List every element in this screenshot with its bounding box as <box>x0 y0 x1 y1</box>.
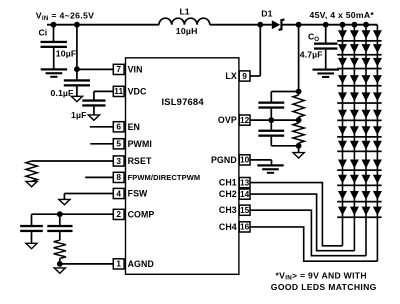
LED row 10 diodes <box>338 175 347 184</box>
wire to VIN pin 7 <box>77 68 114 70</box>
wire CH3 to LED string 3 <box>250 210 366 256</box>
svg-text:OVP: OVP <box>218 115 237 125</box>
capacitor COMP C2 <box>47 225 72 227</box>
resistor OVP R1 <box>293 95 304 117</box>
svg-text:CH4: CH4 <box>219 222 237 232</box>
svg-text:LX: LX <box>225 71 236 81</box>
wire LED string 3 column <box>365 25 367 256</box>
wire LED string 1 column <box>342 25 344 246</box>
wire COMP net <box>32 213 115 215</box>
svg-text:10µF: 10µF <box>56 48 77 58</box>
svg-text:GOOD LEDS MATCHING: GOOD LEDS MATCHING <box>271 282 377 292</box>
capacitor 1uF <box>82 99 105 101</box>
pin 4 FSW <box>124 193 126 195</box>
wire VDC pin to 1uF <box>94 90 114 92</box>
svg-text:*VIN> = 9V AND WITH: *VIN> = 9V AND WITH <box>276 270 367 281</box>
capacitor Co 4.7uF <box>314 43 337 45</box>
resistor R_SET <box>26 161 37 181</box>
pin 5 PWMI <box>124 143 126 145</box>
LED row 2 cathode bar <box>337 54 381 56</box>
LED row 4 diodes <box>338 75 347 84</box>
LED row 6 cathode bar <box>337 120 381 122</box>
pin 8 FPWM/DIRECTPWM <box>124 176 126 178</box>
svg-text:12: 12 <box>240 115 250 125</box>
pin 9 LX <box>239 71 250 81</box>
wire OVP pin to divider <box>250 119 299 121</box>
LED row 8 cathode bar <box>337 151 381 153</box>
resistor OVP R2 <box>293 123 304 143</box>
node diode output junction <box>296 22 302 28</box>
pin 2 COMP <box>124 213 126 215</box>
svg-text:EN: EN <box>128 122 140 132</box>
capacitor OVP C2 <box>270 120 272 130</box>
wire to OVP cap1 <box>270 92 272 102</box>
wire CH2 to LED string 2 <box>250 194 354 251</box>
svg-text:13: 13 <box>240 177 250 187</box>
svg-text:2: 2 <box>116 209 121 219</box>
svg-text:CH1: CH1 <box>219 178 237 188</box>
LED row 11 cathode bar <box>337 201 381 203</box>
node LED column 2 junction <box>352 22 358 28</box>
ground under 0.1uF <box>71 96 82 101</box>
diode D1 schottky <box>272 20 280 29</box>
wire D1 to output rail <box>283 24 378 26</box>
svg-text:ISL97684: ISL97684 <box>162 96 205 107</box>
pin 11 VDC <box>124 90 126 92</box>
wire PWMI stub <box>90 143 114 145</box>
wire PGND to ground <box>250 159 272 161</box>
wire AGND to pin 1 <box>60 263 114 265</box>
pin 14 CH2 <box>239 189 250 199</box>
wire Ci to rail <box>53 25 55 42</box>
wire Co to rail <box>325 25 327 43</box>
pin 6 EN <box>124 126 126 128</box>
svg-text:0.1µF: 0.1µF <box>51 88 74 98</box>
wire C1 to ground <box>31 232 33 243</box>
svg-text:D1: D1 <box>261 8 272 18</box>
LED row 4 cathode bar <box>337 85 381 87</box>
node LED column 1 junction <box>340 22 346 28</box>
svg-text:15: 15 <box>240 205 250 215</box>
svg-text:L1: L1 <box>180 7 190 17</box>
LED row 12 diodes <box>338 207 347 216</box>
svg-text:VIN: VIN <box>128 64 143 74</box>
svg-text:RSET: RSET <box>128 156 152 166</box>
ground under COMP C1 <box>26 243 37 248</box>
pin 10 PGND <box>239 155 250 165</box>
op IC body ISL97684 <box>126 58 239 274</box>
svg-text:VIN = 4~26.5V: VIN = 4~26.5V <box>36 11 94 23</box>
capacitor 0.1uF <box>64 79 90 81</box>
svg-text:16: 16 <box>240 222 250 232</box>
ground under AGND <box>54 268 65 273</box>
wire LED string 2 column <box>353 25 355 251</box>
svg-text:10: 10 <box>240 155 250 165</box>
node Co junction <box>323 22 329 28</box>
capacitor Ci <box>41 41 67 43</box>
capacitor OVP C1 <box>258 102 284 104</box>
node LED column 3 junction <box>363 22 369 28</box>
wire FSW to ground <box>64 193 114 195</box>
svg-text:PWMI: PWMI <box>128 139 152 149</box>
svg-text:7: 7 <box>116 64 121 74</box>
node LX junction <box>257 22 263 28</box>
ground under 1uF <box>88 115 99 120</box>
wire OVP bottom to ground <box>298 146 300 153</box>
wire 0.1uF to ground <box>76 87 78 97</box>
LED row 12 cathode bar <box>337 216 381 218</box>
LED row 10 cathode bar <box>337 185 381 187</box>
LED row 7 cathode bar <box>337 136 381 138</box>
LED row 6 diodes <box>338 110 347 119</box>
pin 13 CH1 <box>239 178 250 188</box>
LED row 5 diodes <box>338 92 347 101</box>
svg-text:Ci: Ci <box>39 27 48 37</box>
svg-text:3: 3 <box>116 156 121 166</box>
LED row 9 diodes <box>338 160 347 169</box>
LED row 2 diodes <box>338 44 347 53</box>
wire OVP bottom cross <box>271 145 298 147</box>
LED row 7 diodes <box>338 126 347 135</box>
ground at PGND <box>257 164 283 166</box>
wire COMP middle branch down <box>59 214 61 225</box>
capacitor COMP C1 <box>20 225 43 227</box>
wire EN stub <box>90 126 114 128</box>
ground under Co <box>313 69 339 71</box>
node junction at VIN pin branch <box>74 66 80 72</box>
wire Co to ground <box>325 50 327 69</box>
node rail junction at x=77 <box>74 22 80 28</box>
svg-text:1: 1 <box>116 259 121 269</box>
inductor L1 10uH <box>159 18 210 25</box>
svg-text:4: 4 <box>116 188 121 198</box>
node OVP mid junction right <box>296 117 302 123</box>
wire OVP top cross <box>271 91 298 93</box>
svg-text:14: 14 <box>240 189 250 199</box>
LED row 11 diodes <box>338 191 347 200</box>
wire output down to OVP divider <box>298 25 300 95</box>
wire 1uF to ground <box>93 107 95 115</box>
ground under RSET resistor <box>26 181 37 186</box>
svg-text:5: 5 <box>116 139 121 149</box>
pin 7 VIN <box>124 68 126 70</box>
svg-text:10µH: 10µH <box>176 26 198 36</box>
node VIN junction at Ci <box>51 22 57 28</box>
svg-text:6: 6 <box>116 122 121 132</box>
svg-text:CH2: CH2 <box>219 189 237 199</box>
svg-text:11: 11 <box>114 86 123 96</box>
pin 15 CH3 <box>239 205 250 215</box>
wire CH4 to LED string 4 <box>250 227 377 261</box>
svg-text:COMP: COMP <box>128 209 155 219</box>
svg-text:VDC: VDC <box>128 86 147 96</box>
node AGND junction <box>57 261 63 267</box>
wire LED string 4 column <box>376 25 378 262</box>
wire C2 to resistor <box>59 232 61 240</box>
LED row 8 diodes <box>338 141 347 150</box>
svg-text:CO: CO <box>308 32 319 43</box>
pin 1 AGND <box>124 263 126 265</box>
node COMP junction <box>57 211 63 217</box>
wire Ci to ground <box>53 48 55 69</box>
pin 12 OVP <box>239 115 250 125</box>
wire RSET to resistor <box>32 160 114 162</box>
pin 3 RSET <box>124 160 126 162</box>
node OVP mid junction left <box>268 117 274 123</box>
node OVP bottom junction <box>296 143 302 149</box>
wire LX junction down to pin 9 <box>259 25 261 76</box>
LED row 3 diodes <box>338 58 347 67</box>
LED row 1 diodes <box>338 30 347 39</box>
svg-text:FSW: FSW <box>128 189 148 199</box>
svg-text:FPWM/DIRECTPWM: FPWM/DIRECTPWM <box>128 173 201 182</box>
wire FPWM/DIRECTPWM stub <box>85 176 114 178</box>
LED row 1 cathode bar <box>337 40 381 42</box>
svg-text:45V, 4 x 50mA*: 45V, 4 x 50mA* <box>310 10 375 20</box>
svg-text:PGND: PGND <box>211 155 237 165</box>
ground under OVP divider <box>293 153 304 158</box>
node OVP divider top junction <box>296 89 302 95</box>
LED row 5 cathode bar <box>337 102 381 104</box>
LED row 3 cathode bar <box>337 68 381 70</box>
ground at FSW <box>59 199 70 204</box>
ground under Ci <box>41 68 67 70</box>
svg-text:9: 9 <box>242 71 247 81</box>
svg-text:1µF: 1µF <box>71 110 87 120</box>
wire COMP left branch down <box>31 214 33 225</box>
resistor COMP R <box>54 240 66 258</box>
wire L1 to D1 <box>210 24 272 26</box>
wire input rail from Vin to L1 <box>47 24 159 26</box>
svg-text:AGND: AGND <box>128 259 154 269</box>
svg-text:4.7µF: 4.7µF <box>300 50 323 60</box>
svg-text:CH3: CH3 <box>219 205 237 215</box>
wire CH1 to LED string 1 <box>250 183 343 246</box>
svg-text:8: 8 <box>116 172 121 182</box>
LED row 9 cathode bar <box>337 169 381 171</box>
pin 16 CH4 <box>239 222 250 232</box>
wire rail branch down to VIN pin <box>76 25 78 80</box>
